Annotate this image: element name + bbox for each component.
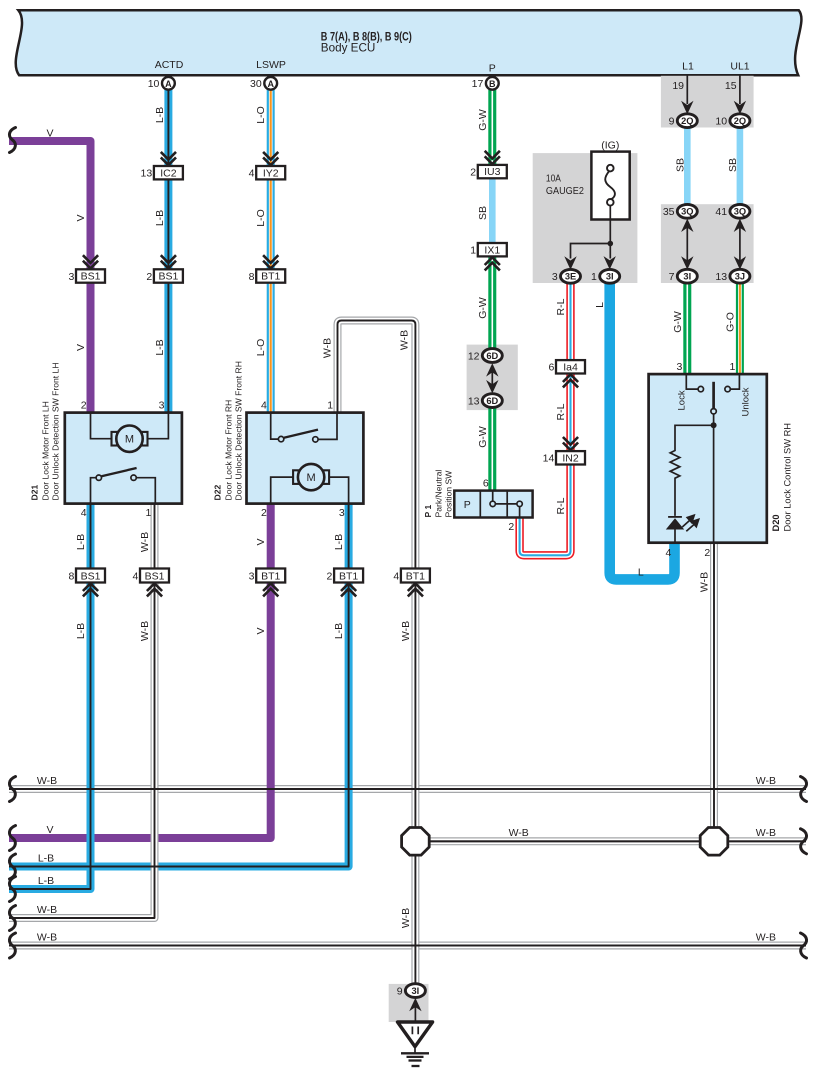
svg-text:W-B: W-B	[398, 330, 410, 350]
svg-text:12: 12	[468, 350, 480, 362]
svg-text:3: 3	[552, 271, 558, 283]
svg-text:L-O: L-O	[255, 209, 267, 227]
svg-text:W-B: W-B	[37, 904, 57, 916]
break symbol V left	[9, 826, 15, 851]
svg-text:IN2: IN2	[562, 452, 579, 464]
svg-text:3Q: 3Q	[681, 207, 693, 217]
svg-text:L: L	[638, 566, 644, 578]
chevron below Ia4	[563, 374, 578, 387]
svg-text:W-B: W-B	[756, 775, 776, 787]
junction splice right	[700, 828, 728, 856]
connector BS1 pin 2	[154, 269, 183, 282]
chevron into 8 BT1	[263, 255, 278, 268]
svg-text:8: 8	[249, 271, 255, 283]
fuse output lead and junction	[571, 206, 611, 259]
svg-text:BT1: BT1	[261, 570, 280, 582]
fuse panel 10A GAUGE2 background	[533, 153, 638, 283]
connector oval 3I pin 9 ground	[405, 984, 425, 998]
break symbol W-B mid right	[801, 829, 807, 854]
Body ECU banner B7/B8/B9	[16, 10, 802, 75]
svg-text:BS1: BS1	[81, 271, 101, 283]
svg-text:19: 19	[672, 80, 684, 92]
svg-text:G-W: G-W	[477, 297, 489, 319]
svg-text:2: 2	[146, 271, 152, 283]
svg-text:3: 3	[68, 271, 74, 283]
svg-text:IC2: IC2	[160, 167, 177, 179]
svg-text:R-L: R-L	[555, 403, 567, 420]
svg-text:D22: D22	[213, 485, 223, 501]
svg-text:W-B: W-B	[139, 532, 151, 552]
svg-text:3: 3	[159, 400, 165, 412]
wire V horizontal to D22 pin 2	[9, 504, 271, 838]
svg-text:13: 13	[715, 271, 727, 283]
svg-text:LSWP: LSWP	[256, 59, 286, 71]
connector oval 6D pin 12	[482, 349, 502, 363]
D22 internal motor wiring	[271, 477, 349, 504]
svg-text:V: V	[255, 627, 267, 634]
svg-text:W-B: W-B	[756, 931, 776, 943]
svg-text:BT1: BT1	[339, 570, 358, 582]
break symbol V top left	[9, 128, 15, 153]
arrows between 6D ovals	[491, 368, 493, 389]
svg-text:L-B: L-B	[154, 210, 166, 226]
svg-text:1: 1	[470, 245, 476, 257]
break symbol W-B upper left	[9, 777, 15, 802]
svg-text:Unlock: Unlock	[741, 387, 752, 416]
svg-text:6D: 6D	[486, 351, 498, 361]
svg-text:A: A	[165, 79, 172, 89]
wire G-W P column IX1 to 6D	[488, 256, 496, 349]
svg-text:1: 1	[730, 361, 736, 373]
svg-text:Door Lock Control SW RH: Door Lock Control SW RH	[783, 423, 793, 532]
D20 lock contact	[686, 374, 703, 392]
connector oval 3E pin 3	[561, 269, 581, 283]
svg-text:2Q: 2Q	[681, 116, 693, 126]
ground symbol	[398, 1022, 433, 1066]
svg-text:2: 2	[327, 571, 333, 583]
svg-text:1: 1	[591, 271, 597, 283]
svg-text:P: P	[489, 62, 496, 74]
connector panel 3Q/3I/3J background	[661, 204, 754, 283]
connector BS1 pin 8	[76, 569, 105, 583]
svg-text:Body ECU: Body ECU	[321, 42, 376, 55]
svg-text:L-B: L-B	[333, 623, 345, 639]
chevron below 8 BS1	[83, 583, 98, 596]
wire G-W P column upper	[488, 90, 496, 166]
connector oval 3Q pin 35	[677, 204, 697, 218]
svg-text:4: 4	[81, 507, 87, 519]
wire W-B horizontal lower full width	[9, 942, 806, 950]
svg-text:4: 4	[261, 400, 267, 412]
wire W-B junction to junction and right break	[415, 837, 806, 845]
break symbol W-B left 2	[9, 906, 15, 931]
svg-text:L-B: L-B	[38, 852, 54, 864]
wire W-B from D22 pin 1 down to ground connector	[338, 321, 416, 991]
component P1 Park/Neutral Position SW box	[454, 491, 532, 518]
svg-text:W-B: W-B	[699, 572, 711, 592]
svg-text:W-B: W-B	[322, 338, 334, 358]
svg-text:6: 6	[483, 478, 489, 490]
svg-text:6: 6	[548, 362, 554, 374]
wire SB L1 column	[684, 127, 691, 205]
D22 unlock detection switch	[271, 413, 337, 442]
junction splice left	[402, 828, 430, 856]
svg-text:1: 1	[327, 400, 333, 412]
break symbol W-B lower left	[9, 933, 15, 958]
svg-text:Door Lock Motor Front LH: Door Lock Motor Front LH	[41, 401, 51, 500]
chevron below 4 BS1	[147, 583, 162, 596]
svg-text:10: 10	[148, 78, 160, 90]
connector IN2 pin 14	[556, 451, 585, 464]
svg-text:M: M	[125, 434, 134, 446]
component D22 Door Lock Motor Front RH box	[247, 413, 364, 504]
connector circle A pin 30 LSWP	[264, 77, 277, 90]
arrows between 3Q and 3I	[686, 224, 688, 263]
svg-text:L: L	[594, 302, 606, 308]
break symbol L-B left 2	[9, 877, 15, 902]
svg-text:2: 2	[508, 521, 514, 533]
connector BT1 pin 3	[256, 569, 285, 583]
svg-text:G-O: G-O	[724, 312, 736, 332]
svg-text:2: 2	[261, 507, 267, 519]
chevron below IX1	[485, 257, 500, 270]
svg-text:2: 2	[704, 547, 710, 559]
D20 junction dot	[711, 422, 717, 428]
svg-text:V: V	[46, 128, 53, 140]
svg-text:BS1: BS1	[158, 271, 178, 283]
connector IX1 pin 1	[478, 243, 507, 256]
svg-text:W-B: W-B	[37, 931, 57, 943]
break symbol L-B left 1	[9, 854, 15, 879]
chevron below 2 BT1	[341, 583, 356, 596]
LED in D20	[668, 516, 682, 518]
svg-text:L-B: L-B	[333, 534, 345, 550]
wire SB P column IU3-IX1	[489, 178, 496, 244]
svg-text:W-B: W-B	[400, 908, 412, 928]
svg-text:V: V	[255, 538, 267, 545]
svg-text:G-W: G-W	[477, 426, 489, 448]
svg-text:IU3: IU3	[484, 166, 501, 178]
svg-text:4: 4	[393, 571, 399, 583]
svg-text:Ia4: Ia4	[563, 361, 578, 373]
svg-text:L-O: L-O	[255, 339, 267, 357]
svg-text:41: 41	[715, 206, 727, 218]
D20 switch lever	[712, 382, 715, 409]
svg-text:W-B: W-B	[509, 827, 529, 839]
svg-text:SB: SB	[675, 158, 687, 172]
connector BT1 pin 4	[401, 569, 430, 583]
svg-text:G-W: G-W	[477, 109, 489, 131]
wire G-O to D20 pin 1	[736, 283, 744, 375]
break symbol W-B lower right	[801, 933, 807, 958]
wire W-B horizontal to D21 pin 1	[9, 504, 155, 918]
lead from ground into 3I	[414, 1005, 416, 1022]
svg-text:2Q: 2Q	[734, 116, 746, 126]
svg-text:BT1: BT1	[261, 271, 280, 283]
chevron into 3 BS1	[83, 255, 98, 268]
svg-text:10A: 10A	[546, 173, 561, 185]
svg-text:L-B: L-B	[75, 534, 87, 550]
connector oval 6D pin 13	[482, 394, 502, 408]
svg-text:Door Unlock Detection SW Front: Door Unlock Detection SW Front RH	[234, 361, 244, 500]
connector BT1 pin 2	[334, 569, 363, 583]
svg-text:3E: 3E	[565, 272, 576, 282]
svg-text:3I: 3I	[606, 272, 614, 282]
connector panel 6D background	[467, 345, 518, 411]
svg-text:V: V	[75, 214, 87, 221]
svg-text:W-B: W-B	[756, 827, 776, 839]
svg-text:3: 3	[676, 361, 682, 373]
svg-text:Door Lock Motor Front RH: Door Lock Motor Front RH	[224, 400, 234, 501]
P1 switch contacts	[490, 491, 522, 518]
svg-text:3I: 3I	[683, 272, 691, 282]
svg-text:R-L: R-L	[555, 298, 567, 315]
svg-text:G-W: G-W	[672, 311, 684, 333]
svg-text:(IG): (IG)	[601, 139, 619, 151]
svg-text:9: 9	[397, 985, 403, 997]
svg-text:V: V	[46, 824, 53, 836]
lead from UL1 pin 15 to 2Q	[739, 76, 741, 105]
chevron into IC2	[161, 152, 176, 165]
svg-text:ACTD: ACTD	[155, 59, 184, 71]
D20 unlock contact	[725, 374, 740, 392]
svg-text:B: B	[489, 79, 496, 89]
svg-text:BT1: BT1	[406, 570, 425, 582]
svg-text:SB: SB	[477, 206, 489, 220]
connector oval 3J pin 13	[730, 269, 750, 283]
svg-text:V: V	[75, 344, 87, 351]
restroke of horizontal wire centre stripes	[9, 789, 806, 946]
svg-text:D21: D21	[30, 485, 40, 501]
wire V from left break to BS1 and D21 pin 2	[9, 141, 91, 413]
ground connector panel 3I background	[389, 984, 429, 1022]
wire G-W P column 6D to P1	[488, 407, 496, 490]
component D20 Door Lock Control SW RH box	[649, 374, 767, 543]
connector IU3 pin 2	[478, 165, 507, 178]
arrows between 3Q and 3J	[739, 224, 741, 263]
chevron below 4 BT1	[408, 583, 423, 596]
svg-text:17: 17	[472, 78, 484, 90]
svg-text:SB: SB	[727, 158, 739, 172]
component D21 Door Lock Motor Front LH box	[65, 413, 182, 504]
svg-text:14: 14	[543, 453, 555, 465]
fuse 10A GAUGE2 (IG)	[591, 152, 629, 220]
svg-text:Lock: Lock	[677, 390, 688, 410]
wire R-L from 3E to P1 pin 2 via Ia4 IN2	[520, 283, 571, 555]
svg-text:13: 13	[468, 395, 480, 407]
wire L-B horizontal to D22 pin 3	[9, 504, 349, 867]
svg-text:L-B: L-B	[75, 623, 87, 639]
svg-text:9: 9	[669, 116, 675, 128]
connector oval 3I pin 7	[677, 269, 697, 283]
svg-text:3Q: 3Q	[734, 207, 746, 217]
svg-text:R-L: R-L	[555, 497, 567, 514]
chevron below 3 BT1	[263, 583, 278, 596]
wire L-B ACTD column	[164, 90, 172, 413]
wire L from 3I to D20 pin 4	[610, 283, 675, 580]
svg-text:7: 7	[669, 271, 675, 283]
svg-text:30: 30	[250, 78, 262, 90]
wire G-W to D20 pin 3	[683, 283, 691, 375]
svg-text:2: 2	[81, 400, 87, 412]
svg-text:GAUGE2: GAUGE2	[546, 185, 584, 197]
resistor in D20	[670, 425, 713, 516]
svg-text:Position SW: Position SW	[444, 470, 454, 518]
svg-text:L-B: L-B	[154, 107, 166, 123]
svg-text:A: A	[267, 79, 274, 89]
svg-text:IY2: IY2	[263, 167, 279, 179]
svg-text:3: 3	[249, 571, 255, 583]
LED light arrows	[682, 515, 698, 531]
arrow into 3I	[604, 256, 616, 269]
svg-text:3: 3	[339, 507, 345, 519]
svg-text:L1: L1	[682, 60, 694, 72]
connector BS1 pin 3	[76, 269, 105, 282]
lead from L1 pin 19 to 2Q	[686, 76, 688, 105]
svg-text:2: 2	[470, 167, 476, 179]
chevron into IY2	[263, 152, 278, 165]
D21 unlock detection switch	[91, 468, 156, 504]
svg-text:IX1: IX1	[484, 244, 500, 256]
connector BS1 pin 4	[140, 569, 169, 583]
svg-text:W-B: W-B	[139, 621, 151, 641]
chevron into IU3	[485, 151, 500, 164]
svg-text:15: 15	[725, 80, 737, 92]
motor M D21	[112, 426, 148, 452]
connector IY2 pin 4	[256, 166, 285, 179]
wire SB UL1 column	[737, 127, 744, 205]
svg-text:L-B: L-B	[38, 875, 54, 887]
svg-text:W-B: W-B	[37, 775, 57, 787]
svg-text:10: 10	[715, 116, 727, 128]
svg-text:P: P	[464, 499, 471, 511]
svg-text:13: 13	[141, 168, 153, 180]
motor M D22	[293, 464, 329, 490]
svg-text:4: 4	[249, 168, 255, 180]
chevron into 2 BS1	[161, 255, 176, 268]
connector circle A pin 10 ACTD	[162, 77, 175, 90]
connector oval 3I pin 1	[600, 269, 620, 283]
svg-text:3I: 3I	[412, 986, 420, 996]
D20 wire to pin 2	[713, 425, 715, 542]
svg-text:D20: D20	[771, 514, 781, 531]
svg-text:1: 1	[146, 507, 152, 519]
svg-text:35: 35	[663, 206, 675, 218]
connector BT1 pin 8	[256, 269, 285, 282]
svg-text:L-B: L-B	[154, 339, 166, 355]
svg-text:W-B: W-B	[400, 621, 412, 641]
svg-text:L-O: L-O	[255, 106, 267, 124]
connector oval 2Q pin 10	[730, 114, 750, 128]
svg-text:BS1: BS1	[81, 570, 101, 582]
svg-text:P 1: P 1	[423, 505, 433, 518]
connector panel 2Q background	[661, 76, 754, 128]
wire L-B horizontal to D21 pin 4	[9, 504, 91, 889]
connector oval 2Q pin 9	[677, 114, 697, 128]
svg-text:8: 8	[68, 571, 74, 583]
svg-text:BS1: BS1	[145, 570, 165, 582]
chevron into IN2	[563, 437, 578, 450]
D21 internal motor wiring	[91, 413, 169, 439]
connector oval 3Q pin 41	[730, 204, 750, 218]
wire L-O LSWP column	[267, 90, 275, 413]
break symbol W-B upper right	[801, 777, 807, 802]
svg-text:M: M	[307, 472, 316, 484]
wire W-B horizontal upper full width	[9, 785, 806, 793]
svg-text:3J: 3J	[735, 272, 745, 282]
connector circle B pin 17 P	[486, 77, 499, 90]
svg-text:4: 4	[132, 571, 138, 583]
svg-text:4: 4	[665, 547, 671, 559]
arrow into 3E	[564, 256, 576, 269]
svg-text:6D: 6D	[486, 396, 498, 406]
wire W-B from D20 pin 2 to junction	[710, 543, 718, 842]
svg-text:Door Unlock Detection SW Front: Door Unlock Detection SW Front LH	[51, 362, 61, 500]
svg-text:Park/Neutral: Park/Neutral	[434, 470, 444, 518]
connector Ia4 pin 6	[556, 360, 585, 373]
svg-text:UL1: UL1	[730, 60, 749, 72]
connector IC2 pin 13	[154, 166, 183, 179]
